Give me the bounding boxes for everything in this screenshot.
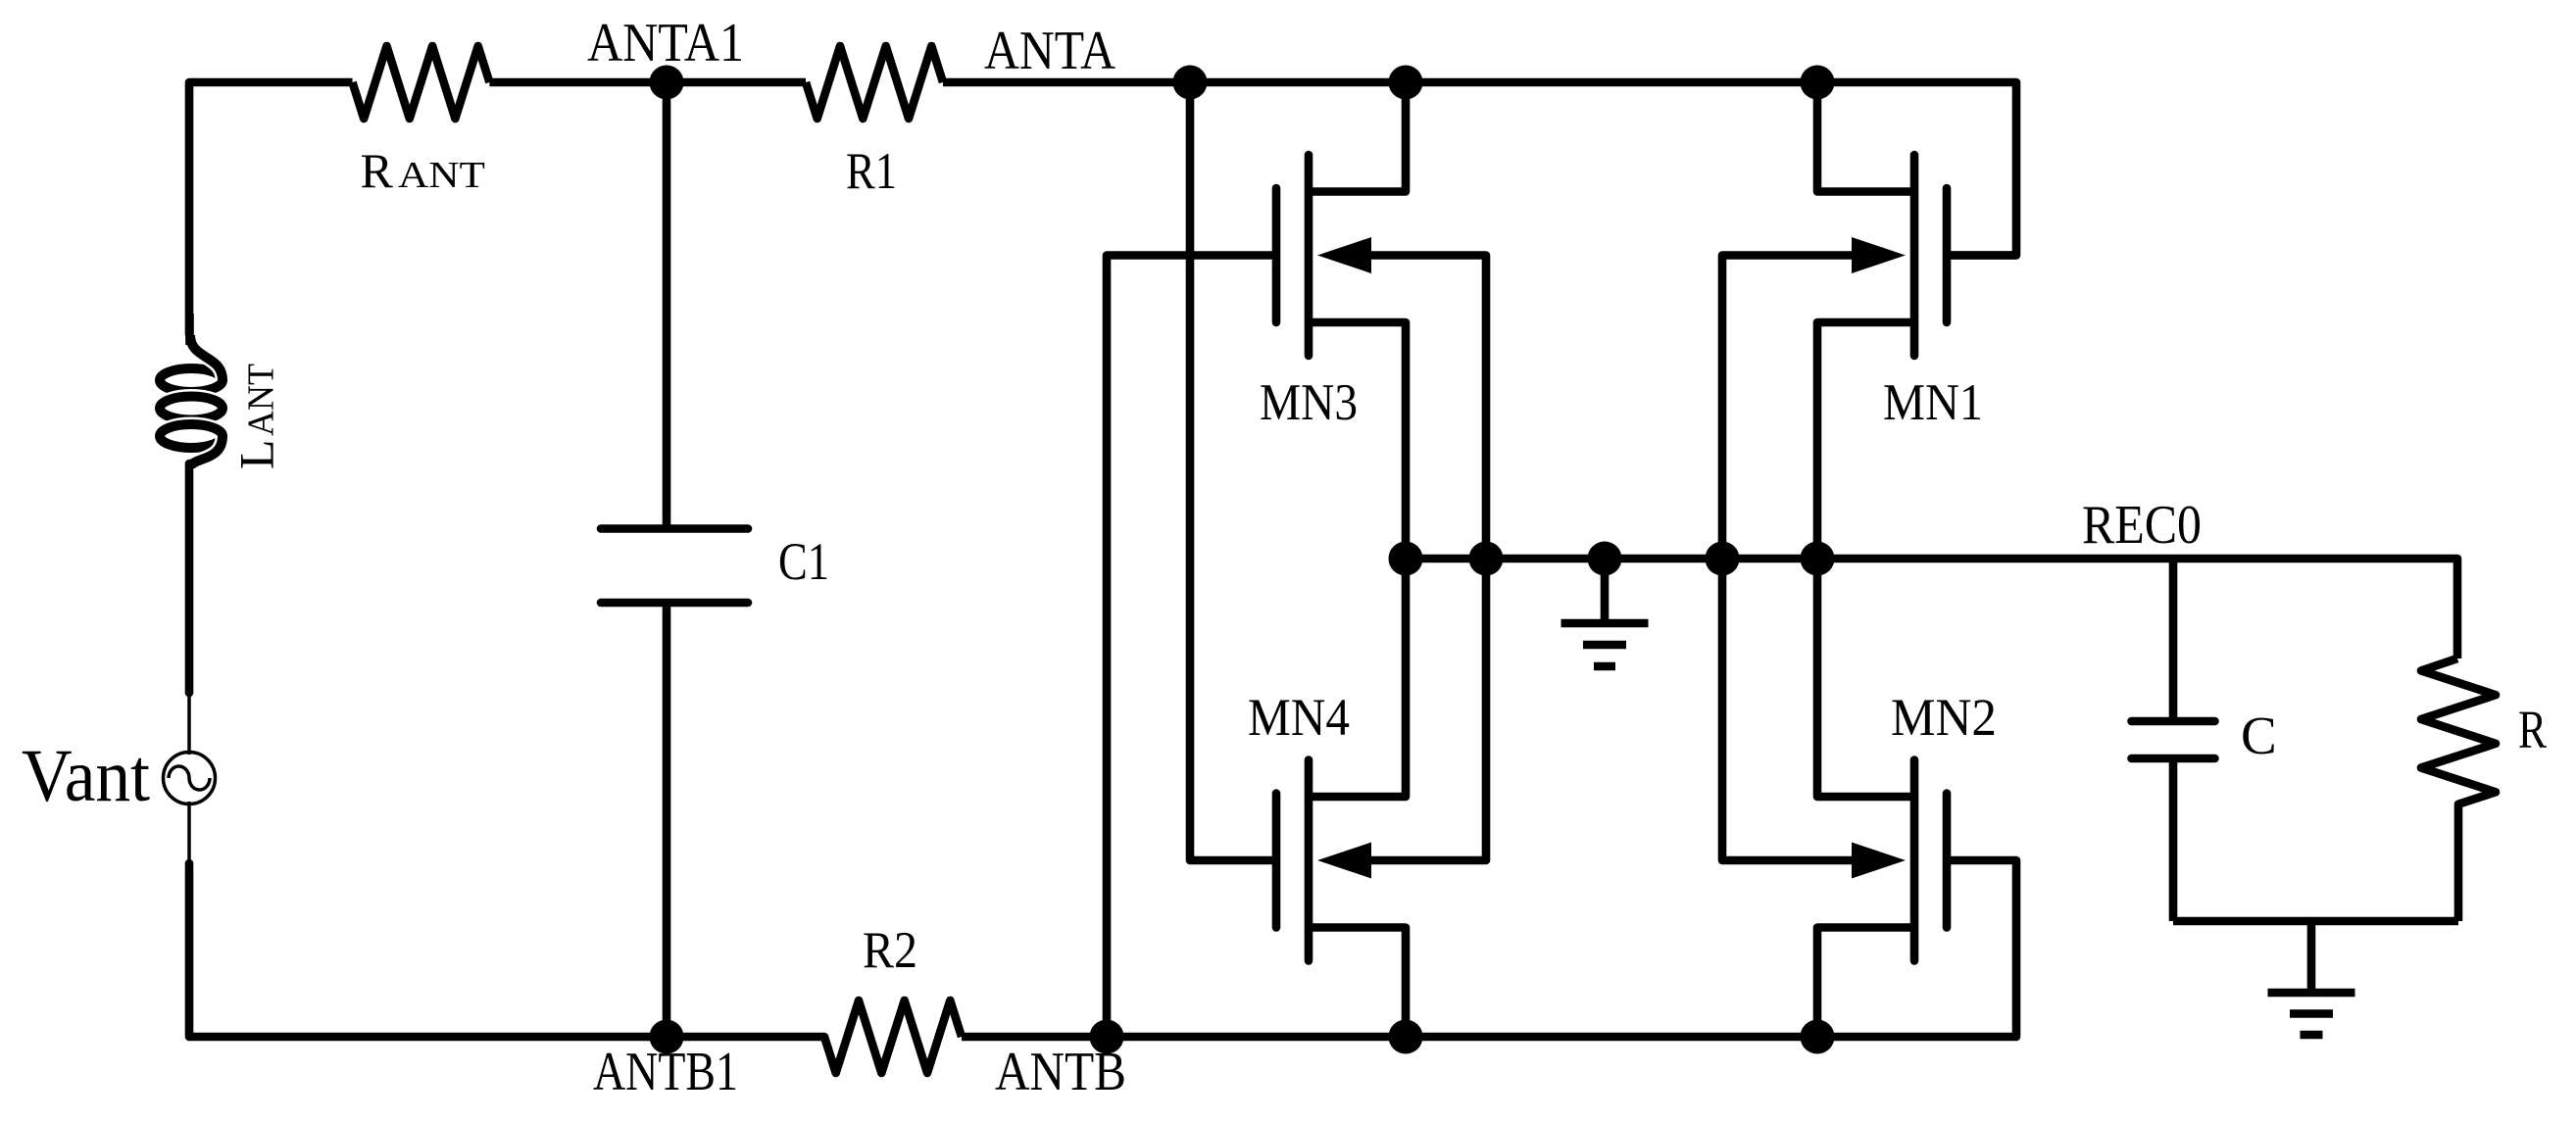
resistor RANT bbox=[353, 46, 490, 119]
resistor R (vertical) bbox=[2421, 658, 2496, 921]
transistor MN4 bbox=[1276, 559, 1406, 1037]
junction dot REC0 rail at ground tap bbox=[1588, 542, 1622, 576]
wire: thin lead below source circle bbox=[187, 802, 191, 865]
svg-text:R: R bbox=[2518, 700, 2547, 759]
junction dot REC0 rail at right bulk bbox=[1706, 542, 1740, 576]
capacitor C load top lead bbox=[2169, 559, 2178, 721]
svg-text:ANTA1: ANTA1 bbox=[587, 13, 744, 73]
svg-text:MN3: MN3 bbox=[1260, 374, 1358, 431]
svg-text:MN1: MN1 bbox=[1883, 374, 1983, 431]
svg-text:Vant: Vant bbox=[22, 735, 150, 817]
wire: thin lead into source circle bbox=[187, 691, 191, 755]
junction dot top rail at MN1 drain bbox=[1801, 66, 1835, 100]
junction dot REC0 rail at MN3 source bbox=[1389, 542, 1423, 576]
wire: inductor bottom to source top (thick, round end) bbox=[185, 463, 194, 693]
source Vant sine bbox=[169, 766, 210, 790]
source Vant circle bbox=[164, 753, 216, 804]
transistor MN1 bbox=[1817, 82, 1947, 559]
label LANT (rotated) bbox=[229, 364, 284, 469]
capacitor C bottom lead bbox=[2169, 758, 2178, 921]
transistor MN3 bbox=[1276, 82, 1406, 559]
wire: load bottom rail bbox=[2173, 917, 2458, 926]
resistor R2 bbox=[824, 1000, 962, 1073]
svg-text:MN2: MN2 bbox=[1891, 688, 1997, 747]
capacitor C1 bottom lead bbox=[663, 603, 671, 1037]
svg-text:L: L bbox=[229, 439, 284, 469]
svg-text:ANT: ANT bbox=[398, 155, 485, 196]
junction dot REC0 rail at left bulk bbox=[1469, 542, 1504, 576]
svg-text:ANTA: ANTA bbox=[984, 21, 1115, 81]
wire: top rail RANT to R1 through node ANTA1 bbox=[489, 78, 806, 87]
svg-text:ANT: ANT bbox=[241, 364, 282, 436]
wire: top-left corner and top rail lead into RANT bbox=[189, 82, 353, 338]
svg-text:ANTB1: ANTB1 bbox=[593, 1042, 738, 1102]
wire: MN1/MN2 bulk to REC0 rail bbox=[1722, 256, 1852, 861]
inductor LANT coil bbox=[160, 314, 223, 468]
svg-text:ANTB: ANTB bbox=[995, 1042, 1126, 1102]
svg-text:MN4: MN4 bbox=[1248, 688, 1350, 747]
svg-text:R: R bbox=[361, 143, 394, 198]
capacitor C1 top lead bbox=[663, 82, 671, 528]
node ANTB junction dot bbox=[1090, 1020, 1124, 1054]
node ANTA1 junction dot bbox=[650, 66, 684, 100]
capacitor C1 plates bbox=[601, 524, 748, 533]
wire: bottom rail from R2 to right end, rise to MN2 gate bbox=[962, 860, 2016, 1037]
svg-text:C: C bbox=[2241, 706, 2277, 765]
transistor MN2 bbox=[1817, 559, 1947, 1037]
wire: MN3 gate to ANTB bbox=[1107, 256, 1276, 1038]
svg-text:R2: R2 bbox=[863, 922, 917, 979]
ground symbol bottom right bbox=[2268, 921, 2355, 1035]
wire: MN1 gate stub to top rail corner bbox=[1951, 251, 2016, 260]
wire: REC0 rail bbox=[1406, 559, 2457, 658]
node ANTB1 junction dot bbox=[650, 1020, 684, 1054]
junction dot REC0 rail at MN1 source bbox=[1801, 542, 1835, 576]
svg-text:R1: R1 bbox=[846, 143, 897, 200]
wire: MN4 gate to ANTA bbox=[1190, 82, 1276, 860]
junction dot bottom rail at MN4 source bbox=[1389, 1020, 1423, 1054]
junction dot bottom rail at MN2 source bbox=[1801, 1020, 1835, 1054]
capacitor C plates bbox=[2132, 717, 2215, 726]
svg-text:REC0: REC0 bbox=[2082, 495, 2202, 556]
wire: top rail from R1 to right end, drop to MN1 gate bbox=[943, 82, 2016, 256]
wire: bottom-left corner to R2 (thick, round end at top) bbox=[189, 863, 824, 1037]
ground symbol mid bbox=[1561, 559, 1649, 666]
resistor R1 bbox=[806, 46, 943, 119]
wire: MN3/MN4 bulk to REC0 rail bbox=[1371, 256, 1486, 861]
node ANTA junction dot bbox=[1173, 66, 1208, 100]
svg-text:C1: C1 bbox=[778, 532, 829, 591]
junction dot top rail at MN3 drain bbox=[1389, 66, 1423, 100]
